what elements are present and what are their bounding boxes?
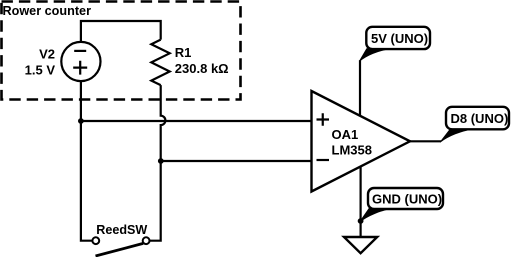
svg-text:GND (UNO): GND (UNO) (372, 191, 442, 206)
ground symbol (344, 237, 377, 253)
voltage source V2 (61, 42, 100, 81)
net flag 5V (UNO) (360, 27, 430, 61)
wire op-amp output (410, 140, 441, 142)
svg-text:R1: R1 (175, 45, 192, 60)
svg-text:ReedSW: ReedSW (96, 222, 148, 237)
op-amp - input marker (317, 159, 330, 161)
svg-text:1.5 V: 1.5 V (25, 63, 56, 78)
wire node A to op-amp + input (81, 120, 312, 122)
svg-text:OA1: OA1 (332, 127, 359, 142)
junction dot node GND (358, 218, 364, 224)
op-amp OA1 (312, 91, 411, 192)
net flag D8 (UNO) (440, 107, 509, 142)
wire R1 bottom down with hop over + wire (150, 85, 166, 241)
svg-text:Rower counter: Rower counter (3, 3, 92, 18)
enclosure box "Rower counter" (dashed) (2, 2, 241, 100)
wire V2 bottom down to switch (81, 81, 92, 241)
net flag GND (UNO) (360, 188, 443, 222)
svg-text:5V (UNO): 5V (UNO) (371, 31, 428, 46)
svg-text:230.8 kΩ: 230.8 kΩ (175, 61, 229, 76)
junction dot node A (78, 118, 84, 124)
wire node B to op-amp - input (161, 160, 312, 162)
svg-text:LM358: LM358 (332, 143, 372, 158)
op-amp + input marker (317, 113, 330, 126)
wire op-amp V+ pin up (359, 60, 361, 116)
switch ReedSW (92, 237, 149, 256)
svg-text:V2: V2 (39, 47, 55, 62)
resistor R1 (151, 40, 169, 86)
junction dot node B (158, 158, 164, 164)
svg-text:D8 (UNO): D8 (UNO) (451, 111, 509, 126)
wire op-amp V- pin down to ground (360, 166, 362, 237)
wire V2 top to R1 top (81, 21, 161, 43)
